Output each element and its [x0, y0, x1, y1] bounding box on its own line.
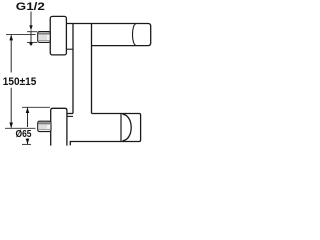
- stub top extension line: [27, 31, 37, 33]
- top G1/2 threaded stub: [38, 32, 51, 43]
- top body cylinder outline: [66, 24, 150, 46]
- 150 dim top extension line: [6, 34, 36, 36]
- top body end arc: [132, 24, 135, 45]
- bottom cap face arc: [123, 114, 132, 140]
- 150 dim line upper segment: [10, 35, 12, 72]
- svg-text:G1/2: G1/2: [16, 1, 45, 13]
- dia65 up arrowhead: [26, 107, 30, 113]
- bottom G1/2 threaded stub: [38, 121, 51, 131]
- stub bottom extension line: [27, 41, 37, 43]
- G1/2 leader line: [30, 12, 32, 27]
- vertical connector bar right edge: [91, 24, 93, 114]
- top flange escutcheon: [50, 16, 66, 55]
- svg-text:150±15: 150±15: [3, 76, 37, 88]
- G1/2 leader arrowhead: [29, 25, 32, 30]
- dia65 down arrowhead: [26, 139, 30, 145]
- dia65 dim line lower segment: [27, 139, 29, 145]
- bottom flange escutcheon: [51, 108, 67, 145]
- 150 dim bottom extension line: [5, 127, 36, 129]
- bottom body cylinder outline: [70, 114, 140, 146]
- dia65 top extension line: [22, 106, 50, 108]
- vertical connector bar left edge: [72, 24, 74, 114]
- bottom body top edge left piece: [66, 113, 73, 115]
- 150 dim down arrowhead: [9, 123, 13, 129]
- svg-text:Ø65: Ø65: [16, 129, 32, 140]
- top union boss bottom edge: [66, 48, 73, 50]
- bottom union boss bottom edge: [66, 115, 73, 117]
- bottom cap joint line: [120, 114, 122, 142]
- 150 dim line lower segment: [10, 88, 12, 128]
- G1/2 leader tail: [30, 30, 32, 45]
- dia65 bottom extension line: [22, 143, 31, 145]
- G1/2 dot terminator: [30, 42, 33, 45]
- 150 dim up arrowhead: [9, 35, 13, 41]
- dia65 dim line upper segment: [27, 108, 29, 128]
